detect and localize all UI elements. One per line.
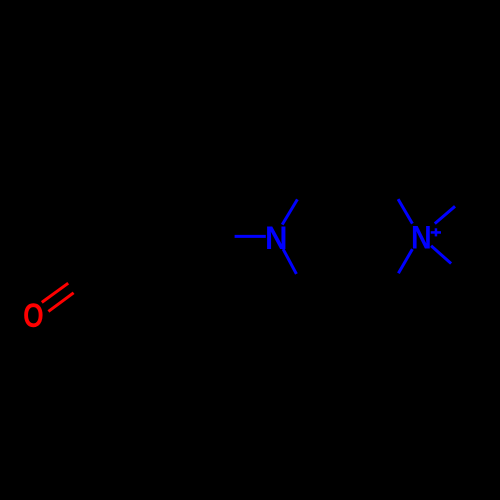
bond C1=O double bond, lower line (O-side half) [48, 293, 73, 312]
bond N1-C7 half (lower right stub) [283, 249, 296, 274]
bond N1-C4 half (upper right stub) [282, 199, 297, 224]
bond N2-C8 methyl half (upper right stub) [435, 206, 455, 223]
svg-text:O: O [23, 297, 44, 335]
bond C3-N1 half (horizontal, N-side) [235, 235, 266, 238]
bond C5-N2 half (upper left stub) [398, 199, 412, 224]
bond C1=O double bond, upper line (O-side half) [42, 283, 68, 302]
bond C6-N2 half (lower left stub) [398, 249, 412, 273]
charge plus sign of N2+ [431, 228, 441, 236]
svg-text:N: N [411, 220, 432, 256]
bond N2-C9 methyl half (lower right stub) [431, 246, 451, 264]
